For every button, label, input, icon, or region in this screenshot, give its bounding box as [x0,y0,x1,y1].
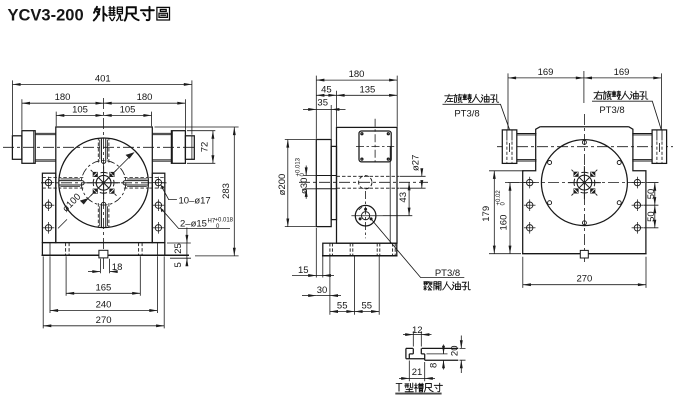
dim 20 arrows [460,336,462,349]
dim 15 ext [316,228,323,278]
svg-text:169: 169 [614,67,630,78]
hidden slot lines across flanges [42,178,164,189]
label right-rotation oil port (CJK) [594,91,648,100]
svg-text:169: 169 [538,67,554,78]
side view dimensions [285,76,465,315]
base hidden slot lines [66,243,143,256]
dim 165 [66,292,140,294]
dim 72 [212,131,214,164]
front view centerline vertical [103,98,105,269]
right shaft end cap [185,136,194,160]
svg-text:180: 180 [55,92,71,103]
dim 283 ext [155,127,239,256]
svg-text:401: 401 [95,73,111,84]
T slot profile [406,348,458,360]
dim 105 left [56,114,103,116]
d100 leader line [58,153,134,229]
svg-text:+0.018: +0.018 [215,217,234,223]
svg-text:105: 105 [120,104,136,115]
dim d27 ext [400,176,426,188]
dim 43 ext [382,215,412,217]
T detail texts [412,325,461,378]
left shaft block [22,131,35,164]
right mounting flange [152,173,165,242]
svg-text:283: 283 [221,183,232,199]
rear view dimensions [443,71,662,288]
svg-text:55: 55 [337,301,348,312]
svg-text:15: 15 [298,265,309,276]
svg-text:12: 12 [412,325,423,336]
dim 283 [233,127,235,256]
svg-text:20: 20 [449,346,460,357]
cover screws [361,133,363,135]
left mounting flange [42,173,55,242]
dim 35 ext [330,105,332,139]
leader left oil port [443,104,510,129]
dim 21 ext [409,361,424,382]
front view dimensions [13,80,239,328]
svg-text:160: 160 [499,215,510,231]
svg-text:ø30: ø30 [299,178,310,194]
T slots on table (4x) [42,138,164,228]
label release oil port (CJK) [424,281,471,290]
base slot solid lines [50,243,157,256]
dim 169 right [584,77,662,79]
hidden bore circle d30 [359,176,372,189]
rear left shaft sleeve [517,134,537,162]
svg-text:45: 45 [321,84,332,95]
dim d27 arrows [421,172,423,177]
right shaft block [171,131,185,164]
svg-text:5: 5 [173,262,184,267]
base plate [42,243,164,256]
svg-text:21: 21 [412,367,423,378]
svg-text:18: 18 [112,262,123,273]
rear right shaft block with port [652,130,667,164]
leader right oil port [592,101,661,129]
dim 401 [13,83,192,85]
table spigot edge-on [331,146,336,219]
dim 30 [316,295,330,297]
rear flange holes [524,177,536,189]
dim 5 ext and arrow [170,257,191,259]
dim 240 [50,310,157,312]
dim 240 ext [50,256,157,313]
dim d200 [287,140,289,227]
svg-text:PT3/8: PT3/8 [435,268,460,279]
dim 179 ext [489,171,524,254]
base hidden slot lines [330,243,395,256]
cover centerlines [356,119,394,163]
rear right shaft sleeve [632,134,652,162]
T detail dimensions [399,331,466,381]
left shaft end cap [12,136,22,160]
dim 180 top [316,79,397,81]
rear circle d179 [541,140,627,226]
front body square [56,127,153,243]
rear table centerline [508,182,659,184]
dim 8 arrows [443,345,445,354]
svg-text:240: 240 [96,300,112,311]
clamp cover square plate [359,131,391,162]
dim 50 upper [654,183,656,206]
rear hub [568,166,601,199]
dim 179 [493,171,495,254]
side view dim texts [277,69,460,312]
dim 105 right [104,114,152,116]
dim 12 ext [413,331,421,346]
svg-text:PT3/8: PT3/8 [454,109,479,120]
dim 18 arrows [88,271,100,273]
left shaft sleeve [35,133,56,161]
dim 55 55 ext [355,257,380,315]
svg-text:8: 8 [429,363,440,368]
leader 10-d17 [161,185,177,200]
svg-text:180: 180 [349,69,365,80]
svg-text:ø27: ø27 [410,155,421,171]
front hub [87,166,120,199]
dim d30 ext [304,176,317,189]
bore hidden d27 [337,176,400,188]
rear spigot hidden edge [389,146,391,243]
svg-text:PT3/8: PT3/8 [599,105,624,116]
dim 45 [316,94,336,96]
svg-text:25: 25 [173,243,184,254]
release oil port [351,191,382,238]
dim 180 left [22,102,104,104]
svg-text:72: 72 [199,142,210,153]
front view table centerline [41,182,167,184]
dim 270 [43,325,164,327]
svg-text:YCV3-200: YCV3-200 [8,7,84,25]
dim 169 169 ext [508,71,661,131]
table disc edge-on [316,140,331,227]
right shaft sleeve [152,133,171,161]
bottom locating tenon [99,250,108,258]
leader PT3/8 release port [371,219,464,277]
dim 169 left [508,77,584,79]
front view shaft centerline [3,146,197,148]
dim 160 ext [505,182,527,184]
svg-text:50: 50 [646,189,657,200]
rear body outline [523,127,646,254]
dim 270 ext [43,256,164,328]
label left-rotation oil port (CJK) [445,94,499,103]
dim 12 arrows [413,334,421,336]
flange holes 10-d17 [43,177,55,189]
dim 18 ext [100,259,109,274]
svg-text:T: T [396,382,403,394]
dim 160 [509,183,511,254]
title: external dimension drawing (CJK) [94,7,170,21]
svg-text:ø200: ø200 [277,174,288,196]
rear centerline vertical [583,114,585,262]
dim 105 105 ext [56,112,151,127]
dim 25 and 5 shared line [186,228,188,266]
side body [337,127,398,243]
svg-text:179: 179 [481,206,492,222]
dim 25 ext [167,242,191,244]
svg-text:2–ø15: 2–ø15 [180,218,207,229]
dim 72 ext [187,131,215,164]
dim 45 135 ext [336,91,338,127]
svg-text:30: 30 [317,285,328,296]
dim 270 rear [523,284,646,286]
dim 55 left [330,311,355,313]
dim 50 50 ext [644,183,659,228]
dim d30 arrows [305,166,307,176]
rear left shaft block with port [502,130,517,164]
rear tenon [580,250,588,258]
dim 43 [408,182,410,215]
bore solid in table [316,176,336,189]
svg-text:10–ø17: 10–ø17 [179,196,211,207]
table circle [59,138,149,228]
rear bolt holes on circle [548,140,622,224]
dim 20 ext [460,348,466,360]
bore centerline [299,181,428,183]
svg-text:180: 180 [137,92,153,103]
dim 15 arrows [316,275,323,277]
svg-text:270: 270 [96,315,112,326]
dim 30 ext [329,257,331,315]
dim 180 right [104,102,186,104]
dim d200 ext [285,140,316,227]
leader 2-d15 [160,208,230,229]
dim 55 right [355,311,380,313]
bolt circle 100 [81,161,126,206]
svg-text:135: 135 [359,84,375,95]
svg-text:105: 105 [72,104,88,115]
svg-text:270: 270 [576,274,592,285]
svg-text:43: 43 [398,192,409,203]
dim 21 arrows [409,377,424,379]
dim 270 ext [523,257,646,288]
underline of T-slot label [395,393,441,395]
rear shaft centerline [497,146,673,148]
svg-text:55: 55 [362,301,373,312]
dim 180 ext [316,76,397,139]
dim 35 [316,108,331,110]
dim 8 ext [427,353,448,355]
side base [323,243,397,256]
dim 135 [337,94,398,96]
rear view dim texts [454,67,657,285]
dim 401 ext lines [13,80,192,135]
front view dim texts [55,73,234,326]
dim 180 180 ext [22,99,186,130]
svg-text:35: 35 [317,98,328,109]
dim 50 lower [654,205,656,228]
svg-text:50: 50 [646,211,657,222]
svg-text:165: 165 [95,282,111,293]
dim 165 ext [66,256,140,296]
